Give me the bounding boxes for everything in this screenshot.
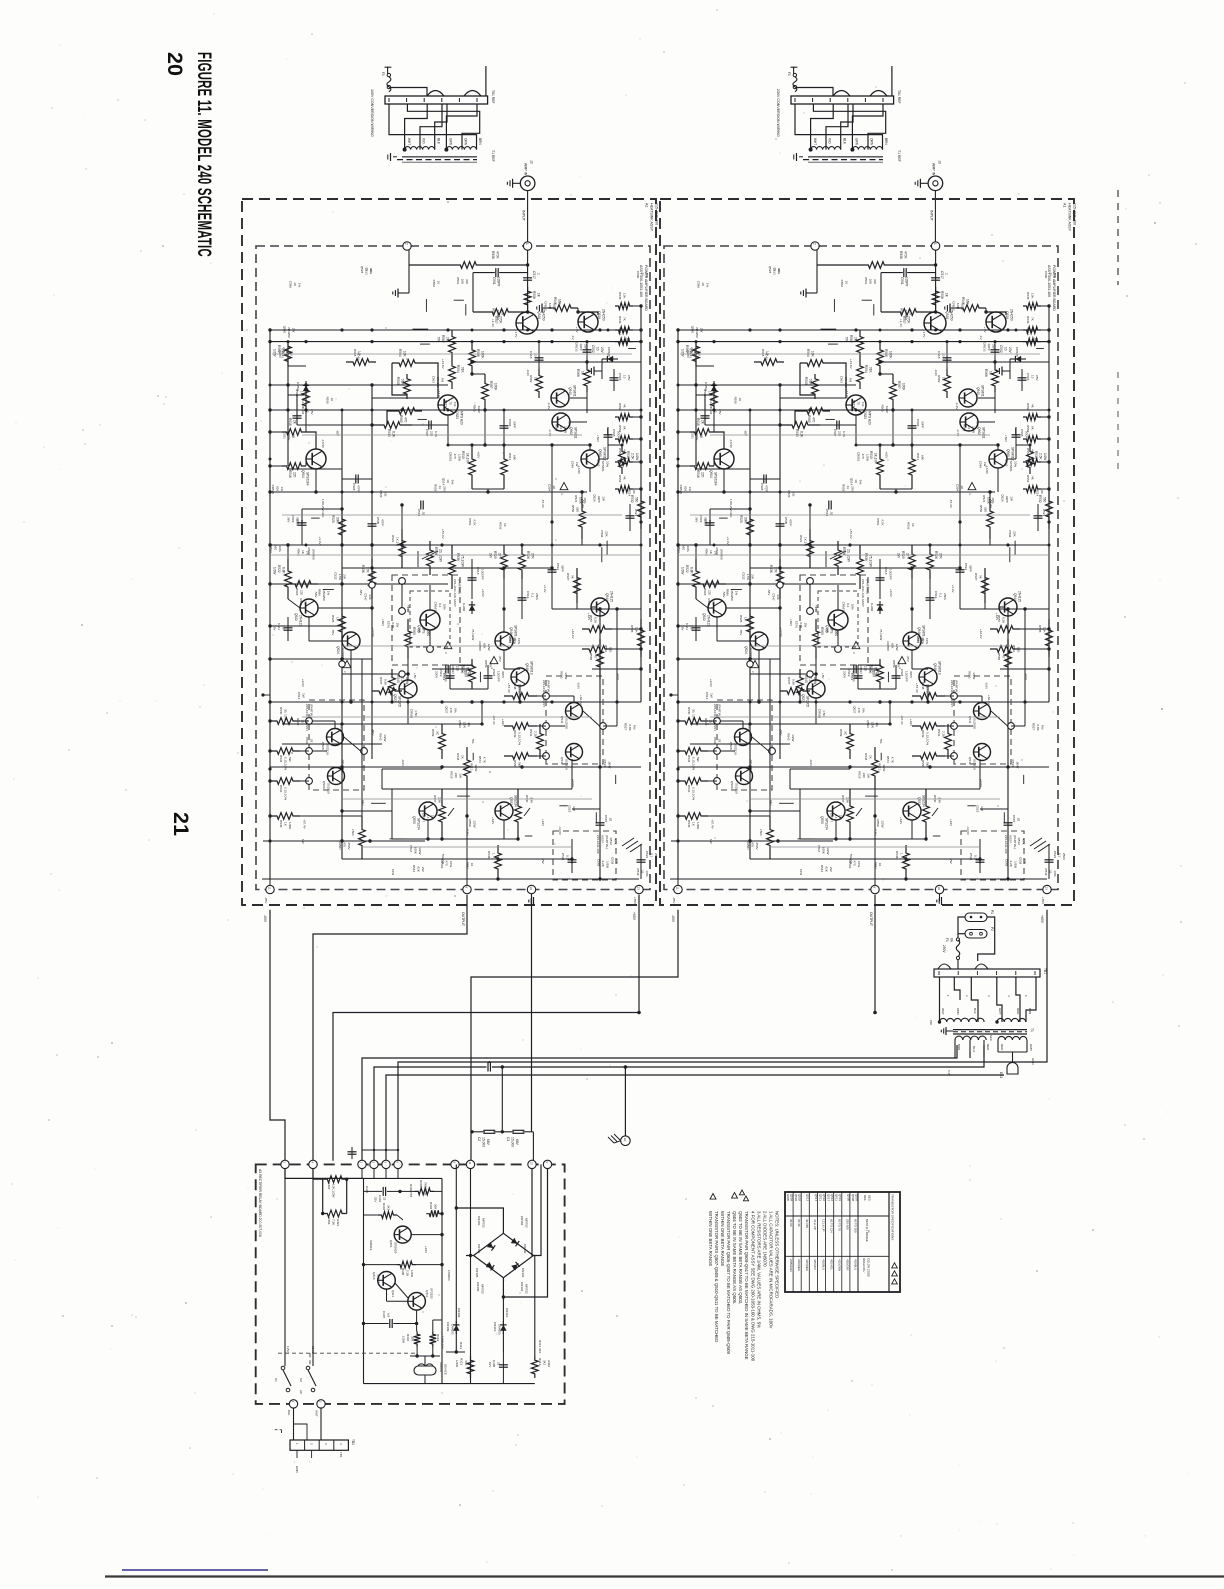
svg-text:7.5K: 7.5K xyxy=(332,1219,336,1226)
capacitor C307 xyxy=(389,1319,391,1328)
PS terminals top xyxy=(281,1160,289,1168)
svg-text:CR309: CR309 xyxy=(446,1322,450,1332)
svg-text:250V: 250V xyxy=(942,945,946,953)
bottom page rule xyxy=(105,1575,1224,1577)
wire GRN secondary xyxy=(386,1075,1004,1161)
wire R output joins bus xyxy=(874,895,876,1013)
right channel amplifier circuit xyxy=(664,242,1066,905)
svg-text:FIGURE 11. MODEL 240 SCHEMATI: FIGURE 11. MODEL 240 SCHEMATIC xyxy=(193,52,214,257)
svg-text:310/RED: 310/RED xyxy=(797,1259,801,1271)
svg-text:21: 21 xyxy=(169,812,193,836)
svg-text:100V CONVERSION WIRING: 100V CONVERSION WIRING xyxy=(370,89,374,137)
100V conversion wiring unit xyxy=(381,66,488,162)
chassis ground E1 xyxy=(621,1136,631,1146)
svg-text:+65V: +65V xyxy=(1040,915,1044,924)
svg-text:425/VIO: 425/VIO xyxy=(813,1259,817,1270)
connector bracket above terminals xyxy=(362,1149,398,1151)
svg-text:410/BLU: 410/BLU xyxy=(854,1259,858,1270)
capacitor (series) xyxy=(487,1063,489,1072)
svg-text:C301: C301 xyxy=(365,1186,369,1194)
svg-text:420/GRY: 420/GRY xyxy=(846,1259,850,1271)
svg-text:+65V: +65V xyxy=(632,912,636,921)
svg-text:CR303: CR303 xyxy=(477,1216,481,1226)
switch S2 xyxy=(306,1366,310,1370)
svg-text:115V: 115V xyxy=(286,1346,290,1353)
switch link dashed xyxy=(278,1352,415,1354)
terminal strip TB1 (power) xyxy=(934,969,1040,977)
svg-text:R301: R301 xyxy=(382,1203,386,1211)
svg-text:CR305: CR305 xyxy=(476,1282,480,1292)
pilot lamp DS1 xyxy=(1007,1063,1018,1075)
svg-text:47K: 47K xyxy=(464,1360,468,1365)
svg-text:BLK: BLK xyxy=(973,1008,977,1014)
svg-text:3 ALL RESISTORS ARE 1/4W, V: 3 ALL RESISTORS ARE 1/4W, VALUES ARE IN … xyxy=(756,1211,761,1328)
svg-text:Q509: Q509 xyxy=(846,1194,850,1201)
svg-text:1N4003: 1N4003 xyxy=(447,1270,451,1281)
svg-text:1/2W: 1/2W xyxy=(455,1360,459,1367)
svg-text:A3 RECTIFIER RELAY BOARD 200-5: A3 RECTIFIER RELAY BOARD 200-507-006 xyxy=(258,1169,262,1237)
ground at jack xyxy=(512,179,514,188)
svg-text:30-60: 30-60 xyxy=(789,1219,793,1227)
svg-text:RED: RED xyxy=(1000,1044,1004,1051)
svg-text:415/GRN: 415/GRN xyxy=(838,1259,842,1271)
svg-text:2N5/GRN: 2N5/GRN xyxy=(789,1259,793,1272)
svg-text:SF2920: SF2920 xyxy=(430,1288,434,1299)
svg-text:C301: C301 xyxy=(378,1195,382,1203)
svg-text:Q502 TO BE IN SAME BETA RANGE: Q502 TO BE IN SAME BETA RANGE AS Q503, xyxy=(738,1211,743,1304)
svg-text:SEC: SEC xyxy=(989,1035,993,1041)
svg-text:A2: A2 xyxy=(645,203,649,207)
svg-text:GND: GND xyxy=(295,1466,299,1474)
svg-text:CR309: CR309 xyxy=(457,1308,461,1318)
svg-text:2 ALL DIODES ARE 1N5070: 2 ALL DIODES ARE 1N5070 xyxy=(762,1211,767,1267)
svg-text:DES.: DES. xyxy=(868,1195,872,1202)
svg-text:~: ~ xyxy=(308,1461,312,1463)
wire E1 drop xyxy=(624,1067,626,1136)
secondary coil right xyxy=(998,1036,1027,1040)
svg-text:15,000: 15,000 xyxy=(482,1137,486,1147)
svg-text:1/2W: 1/2W xyxy=(410,1270,414,1277)
svg-text:A1: A1 xyxy=(1063,203,1067,207)
wire L +65V / R output bus xyxy=(333,895,639,1161)
svg-text:S1: S1 xyxy=(274,1378,278,1382)
switch S1 xyxy=(281,1366,285,1370)
transformer core T1 xyxy=(953,1029,1027,1031)
svg-text:TRANSISTOR PAIR Q509-Q517 TO B: TRANSISTOR PAIR Q509-Q517 TO BE MATCHED … xyxy=(744,1211,749,1360)
svg-text:BRN: BRN xyxy=(957,1044,961,1050)
resistor R314 xyxy=(531,1356,538,1378)
wire R -65V drop xyxy=(471,910,678,1161)
wire L mid drop xyxy=(531,895,533,1132)
svg-text:Q511: Q511 xyxy=(818,1194,822,1201)
svg-text:4 FOR COMPONENT ASSY SEE DW: 4 FOR COMPONENT ASSY SEE DWG 200-1053-10… xyxy=(750,1211,755,1362)
svg-text:G005: G005 xyxy=(786,1194,790,1201)
svg-text:250-300: 250-300 xyxy=(846,1219,850,1230)
terminals on box bottom xyxy=(289,1400,297,1408)
svg-text:CR305: CR305 xyxy=(475,1268,479,1278)
svg-text:C307: C307 xyxy=(382,1311,386,1319)
svg-text:DS1: DS1 xyxy=(999,1072,1003,1078)
svg-text:CR303: CR303 xyxy=(477,1244,481,1254)
svg-text:R313: R313 xyxy=(460,1358,464,1366)
svg-text:Q517: Q517 xyxy=(814,1194,818,1201)
svg-text:1N4003: 1N4003 xyxy=(451,1324,455,1335)
svg-text:Q311: Q311 xyxy=(425,1290,429,1298)
svg-text:C3: C3 xyxy=(506,1137,510,1141)
svg-text:20: 20 xyxy=(163,52,187,76)
resistor R311 xyxy=(429,1331,436,1347)
svg-text:1/2W: 1/2W xyxy=(402,1336,406,1343)
svg-text:Q512: Q512 xyxy=(806,1194,810,1201)
svg-text:P1: P1 xyxy=(990,910,994,914)
svg-text:22: 22 xyxy=(383,1197,387,1201)
svg-text:R308: R308 xyxy=(401,1268,405,1276)
wire jack down xyxy=(527,191,529,246)
cap right drop xyxy=(532,1132,534,1161)
svg-text:TRANSISTOR SPECIFICATIONS: TRANSISTOR SPECIFICATIONS xyxy=(891,1194,895,1240)
resistor R306 xyxy=(323,1210,347,1217)
svg-text:+: + xyxy=(484,1057,488,1059)
svg-text:2.2K: 2.2K xyxy=(406,1270,410,1276)
svg-text:R303: R303 xyxy=(419,1180,423,1188)
svg-text:R302: R302 xyxy=(327,1182,331,1190)
table band rules xyxy=(785,1215,889,1217)
connector terminal drops xyxy=(361,1169,363,1179)
rectifier relay board dashed box xyxy=(256,1164,565,1404)
svg-text:SPS828: SPS828 xyxy=(394,1242,398,1254)
svg-text:R310: R310 xyxy=(406,1334,410,1342)
svg-text:AMP IN: AMP IN xyxy=(931,163,935,176)
filter capacitor C3 xyxy=(512,1129,524,1131)
zener CR310 xyxy=(500,1325,506,1331)
svg-text:S02919: S02919 xyxy=(369,1240,373,1251)
svg-text:22: 22 xyxy=(497,1362,501,1366)
svg-text:GRN: GRN xyxy=(1031,1058,1035,1064)
note warning triangles xyxy=(710,1194,716,1200)
right edge stray dashes xyxy=(1117,190,1119,285)
svg-text:TB1: TB1 xyxy=(351,1439,355,1445)
fuse F1 6A 250V xyxy=(956,940,960,957)
wire BRN secondary xyxy=(362,1045,957,1161)
svg-text:63V: 63V xyxy=(488,1362,492,1367)
svg-text:WITHIN ONE BETA RANGE: WITHIN ONE BETA RANGE xyxy=(720,1211,725,1266)
svg-text:S03A62: S03A62 xyxy=(439,1362,443,1373)
ground at jack xyxy=(919,179,921,188)
svg-text:-65V: -65V xyxy=(263,915,267,923)
svg-text:E1: E1 xyxy=(623,1138,627,1142)
svg-text:A302: A302 xyxy=(547,1360,551,1367)
svg-text:R319: R319 xyxy=(436,1334,440,1342)
svg-text:AMP IN: AMP IN xyxy=(524,163,528,176)
resistor R308 xyxy=(396,1261,416,1268)
resistor R302 xyxy=(323,1176,347,1183)
svg-text:MR752: MR752 xyxy=(481,1284,485,1294)
svg-text:25V: 25V xyxy=(374,1197,378,1202)
svg-text:RED: RED xyxy=(1016,1008,1020,1015)
svg-text:R303 7K5: R303 7K5 xyxy=(409,1184,413,1198)
svg-text:BRN: BRN xyxy=(1028,1008,1032,1014)
svg-text:GRN: GRN xyxy=(1029,1044,1033,1051)
wire switch feeds xyxy=(284,1169,286,1366)
svg-text:50/60: 50/60 xyxy=(311,1346,315,1354)
wire RED secondary xyxy=(374,1067,487,1161)
relay board internal frame xyxy=(285,1169,364,1179)
transistor Q301 SPS6828 xyxy=(394,1226,411,1243)
wire jack down xyxy=(934,191,936,246)
svg-text:MR752: MR752 xyxy=(525,1284,529,1294)
svg-text:30K: 30K xyxy=(411,1336,415,1341)
svg-text:INPUT: INPUT xyxy=(522,210,526,222)
right edge stray dashes lower xyxy=(1117,372,1119,470)
svg-text:R314: R314 xyxy=(538,1358,542,1366)
svg-text:15,000: 15,000 xyxy=(511,1137,515,1147)
svg-text:S2: S2 xyxy=(299,1378,303,1382)
svg-text:3K3: 3K3 xyxy=(543,1360,547,1366)
svg-text:415/RED: 415/RED xyxy=(805,1259,809,1271)
resistor R304 xyxy=(426,1210,442,1217)
transistor Q310 xyxy=(378,1272,396,1290)
hump crossover xyxy=(938,964,951,969)
svg-text:Q508: Q508 xyxy=(851,1194,855,1201)
svg-text:T1: T1 xyxy=(1030,1028,1034,1032)
svg-text:TB1: TB1 xyxy=(1043,968,1047,974)
svg-text:OUTPUT: OUTPUT xyxy=(869,912,873,926)
transistor Q311 SF2920 xyxy=(408,1293,426,1311)
capacitor C308 xyxy=(499,1364,508,1366)
svg-text:REF.: REF. xyxy=(863,1195,867,1201)
svg-text:BLU: BLU xyxy=(972,1046,976,1052)
svg-text:P2: P2 xyxy=(990,927,994,931)
svg-text:1 ALL CAPACITOR VALUES ARE: 1 ALL CAPACITOR VALUES ARE IN MICROFARAD… xyxy=(769,1211,774,1329)
svg-text:215-1011-100: 215-1011-100 xyxy=(655,203,659,225)
left channel heatsink assy outer dashed box xyxy=(242,199,656,905)
bottom blue rule xyxy=(122,1569,268,1571)
svg-text:30K: 30K xyxy=(434,1204,438,1209)
svg-text:HEATSINK ASSY: HEATSINK ASSY xyxy=(1068,203,1072,232)
svg-text:S2667: S2667 xyxy=(377,1274,381,1283)
bridge rectifier xyxy=(474,1233,534,1277)
AC plug prong upper xyxy=(965,913,987,922)
svg-text:6.8: 6.8 xyxy=(387,1313,391,1318)
phono jack AMP IN J2 xyxy=(520,176,535,191)
svg-text:TB1: TB1 xyxy=(339,1452,343,1458)
table column rules xyxy=(792,1192,794,1292)
transistor specifications table xyxy=(785,1192,900,1292)
svg-text:F1: F1 xyxy=(945,938,949,942)
strip pigtails xyxy=(296,1450,298,1458)
svg-text:CR302: CR302 xyxy=(520,1216,524,1226)
svg-text:Q504 TO BE IN SAME BETA RANGE: Q504 TO BE IN SAME BETA RANGE AS Q505. xyxy=(732,1211,737,1304)
cap mid riser xyxy=(501,1067,503,1132)
svg-text:12: 12 xyxy=(530,1162,534,1166)
svg-text:+24V: +24V xyxy=(424,1246,428,1253)
svg-text:ORN: ORN xyxy=(956,1008,960,1015)
svg-text:MR752: MR752 xyxy=(525,1218,529,1228)
svg-text:40-150: 40-150 xyxy=(805,1219,809,1228)
wire L -65V drop xyxy=(270,910,285,1161)
svg-text:R304: R304 xyxy=(429,1202,433,1210)
svg-text:R314 3K3: R314 3K3 xyxy=(538,1340,542,1354)
svg-text:20-40: 20-40 xyxy=(797,1219,801,1227)
svg-text:TRANSISTOR PAIRS Q507-Q509 & Q: TRANSISTOR PAIRS Q507-Q509 & Q510-Q511 T… xyxy=(714,1211,719,1342)
svg-text:121 & UP: 121 & UP xyxy=(821,1219,825,1231)
svg-text:68V: 68V xyxy=(486,1139,490,1146)
thermal breaker xyxy=(414,1366,436,1375)
svg-text:T1 REF: T1 REF xyxy=(897,150,901,162)
svg-text:RED: RED xyxy=(986,1044,990,1051)
resistor R310 xyxy=(414,1331,421,1347)
svg-text:CR302: CR302 xyxy=(523,1244,527,1254)
svg-text:60 TO 124: 60 TO 124 xyxy=(829,1219,833,1233)
svg-text:10K,1/2W: 10K,1/2W xyxy=(332,1184,336,1198)
svg-text:Q311: Q311 xyxy=(391,1290,395,1297)
svg-text:T81 REF: T81 REF xyxy=(491,90,495,104)
svg-text:HEATSINK ASSY: HEATSINK ASSY xyxy=(650,203,654,232)
svg-text:CR304: CR304 xyxy=(520,1282,524,1292)
bridge connections xyxy=(455,1208,503,1233)
svg-text:1N4003: 1N4003 xyxy=(498,1324,502,1335)
svg-text:60 TO 200: 60 TO 200 xyxy=(854,1219,858,1233)
svg-text:PRI: PRI xyxy=(929,1020,933,1025)
svg-text:T1 REF: T1 REF xyxy=(491,150,495,162)
svg-text:CR310: CR310 xyxy=(505,1308,509,1318)
svg-text:Q511: Q511 xyxy=(835,1194,839,1201)
svg-text:GRY: GRY xyxy=(998,1008,1002,1014)
caps row wire xyxy=(472,1131,485,1133)
bracket mark xyxy=(275,1429,282,1431)
svg-text:T81 REF: T81 REF xyxy=(897,90,901,104)
svg-text:CR310: CR310 xyxy=(493,1322,497,1332)
wire plug leads xyxy=(958,917,965,938)
230V conversion wiring unit xyxy=(787,66,894,162)
zener CR309 xyxy=(453,1325,459,1331)
left channel amplifier circuit xyxy=(256,242,658,905)
primary winding wires xyxy=(939,977,941,1022)
svg-text:DEVICE: DEVICE xyxy=(444,1364,448,1375)
svg-text:INPUT: INPUT xyxy=(929,210,933,222)
secondary coil left xyxy=(955,1036,986,1040)
svg-text:435/YEL: 435/YEL xyxy=(829,1259,833,1270)
resistor R313 xyxy=(467,1356,474,1378)
resistor R303 xyxy=(415,1188,435,1195)
svg-text:14K5,1W: 14K5,1W xyxy=(441,1336,445,1349)
AC plug prong lower xyxy=(965,930,987,939)
wire R +65V drop xyxy=(398,910,1047,1161)
svg-text:OUTPUT: OUTPUT xyxy=(461,912,465,926)
terminal strip TB1 (mains) xyxy=(290,1440,348,1450)
primary coils xyxy=(940,1018,962,1022)
resistor R301 xyxy=(378,1212,397,1219)
svg-text:215-1011-100: 215-1011-100 xyxy=(1073,203,1077,225)
svg-text:7K5,1/2W: 7K5,1/2W xyxy=(424,1182,428,1195)
filter capacitor C2 xyxy=(488,1125,490,1132)
svg-text:Q517: Q517 xyxy=(827,1194,831,1201)
wire L output drop xyxy=(313,895,467,1161)
svg-text:50 TO 70: 50 TO 70 xyxy=(838,1219,842,1231)
svg-text:-65V: -65V xyxy=(671,915,675,923)
right channel heatsink assy outer dashed box xyxy=(660,199,1074,905)
phono jack AMP IN J3 xyxy=(928,176,943,191)
capacitor C301 xyxy=(382,1187,384,1196)
svg-text:430/BLU: 430/BLU xyxy=(821,1259,825,1270)
svg-text:R313: R313 xyxy=(459,1342,463,1350)
svg-text:Q503: Q503 xyxy=(794,1194,798,1201)
wires to TB1 xyxy=(293,1408,295,1440)
svg-text:230V CONVERSION WIRING: 230V CONVERSION WIRING xyxy=(776,89,780,137)
svg-text:TRANSISTOR PAIR Q506-Q507 TO B: TRANSISTOR PAIR Q506-Q507 TO BE MATCHED … xyxy=(726,1211,731,1354)
svg-text:41 & UP: 41 & UP xyxy=(813,1219,817,1230)
svg-text:J2: J2 xyxy=(530,160,534,164)
svg-text:6.3V: 6.3V xyxy=(947,1070,951,1076)
svg-text:Q301: Q301 xyxy=(389,1240,393,1248)
svg-text:NOTES: UNLESS OTHERWISE SPECI: NOTES: UNLESS OTHERWISE SPECIFIED xyxy=(775,1211,780,1298)
svg-text:J3: J3 xyxy=(937,160,941,164)
svg-text:WHT: WHT xyxy=(941,1008,945,1015)
svg-text:3K1: 3K1 xyxy=(387,1205,391,1211)
svg-text:Q310: Q310 xyxy=(372,1272,376,1280)
svg-text:R306: R306 xyxy=(327,1217,331,1225)
svg-text:68V: 68V xyxy=(515,1139,519,1146)
svg-text:CR304: CR304 xyxy=(521,1268,525,1278)
svg-text:BLK: BLK xyxy=(287,1410,291,1416)
svg-text:MR752: MR752 xyxy=(482,1218,486,1228)
svg-text:COLOR CODE: COLOR CODE xyxy=(867,1258,871,1277)
svg-text:C2: C2 xyxy=(477,1137,481,1141)
vertical 472 xyxy=(470,1169,472,1384)
svg-text:11: 11 xyxy=(468,1162,472,1165)
svg-text:WITHIN ONE BETA RANGE: WITHIN ONE BETA RANGE xyxy=(708,1211,713,1266)
svg-text:WHT: WHT xyxy=(315,1410,319,1417)
svg-text:DASH NO./: DASH NO./ xyxy=(862,1258,866,1273)
svg-text:A321: A321 xyxy=(336,1219,340,1227)
svg-text:~: ~ xyxy=(293,1461,297,1463)
